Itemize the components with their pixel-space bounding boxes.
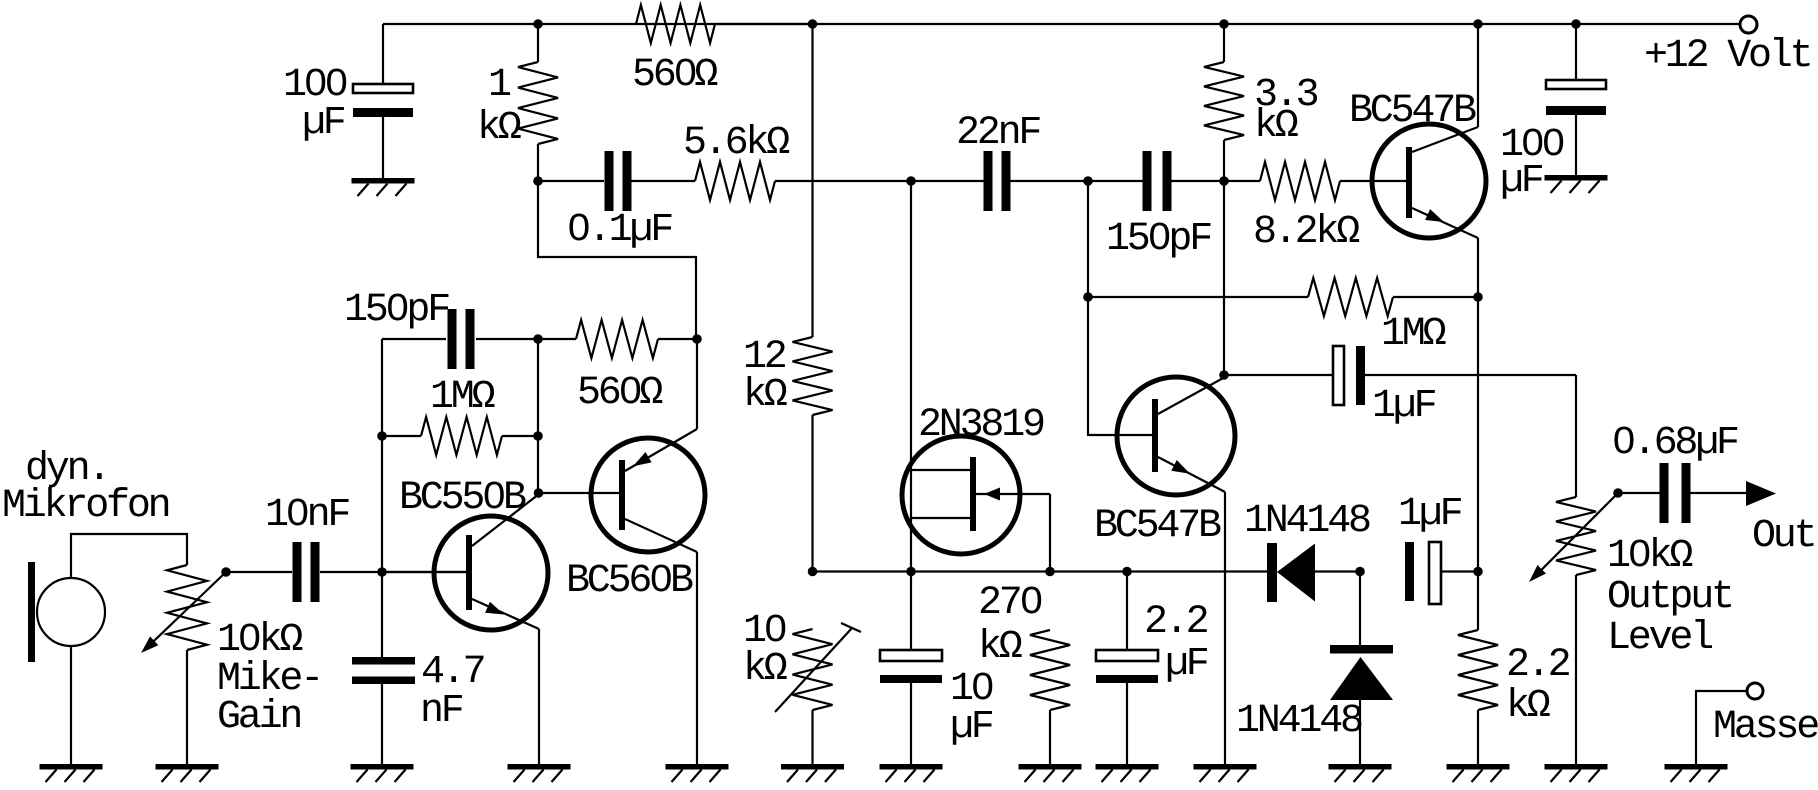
resistor R 1M left <box>421 375 502 455</box>
ground mic <box>40 764 103 782</box>
node N14 <box>1045 567 1055 577</box>
wire 0.1uF-5.6k <box>631 180 695 182</box>
wire 2.2k bottom <box>1477 710 1479 764</box>
wire 1k top <box>537 24 539 62</box>
svg-text:Level: Level <box>1607 616 1712 661</box>
svg-text:BC550B: BC550B <box>399 476 526 521</box>
wire node-10nF <box>226 571 292 573</box>
transistor Q BC547B out <box>1349 89 1486 238</box>
diode D 1N4148 vertical <box>1236 645 1393 744</box>
capacitor C 10nF <box>265 493 349 602</box>
wire rail seg <box>715 23 813 25</box>
capacitor C 150pF left <box>344 288 475 369</box>
wire 150pF1-560 <box>476 338 576 340</box>
wire 12k bottom <box>811 415 813 572</box>
wire trimmer bottom <box>811 710 813 764</box>
capacitor C 1uF feedback <box>1333 346 1436 429</box>
diode D 1N4148 horizontal <box>1244 499 1370 602</box>
svg-text:nF: nF <box>420 689 463 734</box>
arrow Out <box>1746 481 1814 559</box>
capacitor C 2.2uF <box>1096 600 1208 687</box>
node N13 <box>906 567 916 577</box>
node N11 (wiper) <box>221 567 231 577</box>
transistor Q BC560B <box>566 429 705 604</box>
wire 1M2 left <box>1088 296 1308 298</box>
potentiometer R 10k Mike-Gain <box>141 565 321 740</box>
svg-text:kΩ: kΩ <box>743 373 787 418</box>
wire 1224 vertical <box>1223 181 1225 375</box>
wire BC547B1 collector <box>1477 24 1479 127</box>
capacitor C 4.7nF <box>352 650 484 734</box>
ground 4.7nF <box>351 764 414 782</box>
wire pot-out top <box>1575 375 1577 497</box>
resistor R 1k <box>477 62 558 151</box>
wire 100uF-left top <box>382 24 384 84</box>
wire 5.6k-22nF <box>775 180 984 182</box>
wire 150pF-8.2k <box>1171 180 1260 182</box>
svg-text:1µF: 1µF <box>1398 492 1462 537</box>
microphone symbol <box>28 562 105 662</box>
ground BC550B emitter <box>508 764 571 782</box>
capacitor C 22nF <box>956 111 1040 211</box>
wire row3 <box>1050 570 1127 572</box>
wire 100uF-right bottom <box>1575 115 1577 175</box>
svg-text:µF: µF <box>1165 642 1208 687</box>
capacitor C 150pF right <box>1106 151 1211 262</box>
terminal +12 Volt <box>1644 16 1810 79</box>
svg-text:Output: Output <box>1607 575 1732 620</box>
wire 1M1 right <box>502 435 538 437</box>
svg-text:BC547B: BC547B <box>1349 89 1476 134</box>
ground 2.2k <box>1447 764 1510 782</box>
wire 270k bottom <box>1049 710 1051 764</box>
svg-text:Mikrofon: Mikrofon <box>2 484 169 529</box>
wire +12V top rail <box>383 23 1739 25</box>
svg-text:22nF: 22nF <box>956 111 1040 156</box>
node N7 <box>377 431 387 441</box>
wire to 0.1uF <box>538 180 604 182</box>
svg-text:Masse: Masse <box>1713 705 1818 750</box>
svg-text:µF: µF <box>302 101 345 146</box>
svg-text:10kΩ: 10kΩ <box>1607 534 1692 579</box>
resistor R 12k <box>743 335 833 418</box>
wire masse <box>1696 691 1747 764</box>
ground output pot <box>1545 764 1608 782</box>
capacitor C 0.1uF <box>567 151 672 253</box>
wire 150pF1 left <box>382 338 446 340</box>
node N6 <box>692 334 702 344</box>
wire 10uF top <box>910 572 912 651</box>
node N19 <box>1473 567 1483 577</box>
ground 100uF-left <box>352 178 415 196</box>
wire 2.2uF bottom <box>1126 683 1128 764</box>
svg-text:1µF: 1µF <box>1372 384 1436 429</box>
svg-text:BC560B: BC560B <box>566 559 693 604</box>
wire 10nF-base <box>320 571 466 573</box>
svg-text:10nF: 10nF <box>265 493 349 538</box>
wire 2.2uF top <box>1126 572 1128 651</box>
wire 4.7nF bottom <box>381 684 383 764</box>
ground 2.2uF <box>1096 764 1159 782</box>
wire BC547B2 emitter <box>1224 492 1226 764</box>
capacitor C 0.68uF <box>1612 421 1738 523</box>
svg-text:0.68µF: 0.68µF <box>1612 421 1738 466</box>
node N10 <box>534 488 544 498</box>
node N1 (1k/0.1uF) <box>533 176 543 186</box>
wire row4 <box>1127 570 1267 572</box>
resistor R 2.2k <box>1458 630 1570 729</box>
potentiometer R 10k preset <box>743 609 861 712</box>
svg-text:2N3819: 2N3819 <box>918 403 1044 448</box>
resistor R 8.2k <box>1253 162 1359 255</box>
svg-text:1: 1 <box>488 63 511 108</box>
node rail-E <box>1571 19 1581 29</box>
wire 1k bottom <box>537 144 539 181</box>
svg-text:1MΩ: 1MΩ <box>1381 312 1446 357</box>
svg-text:1N4148: 1N4148 <box>1244 499 1370 544</box>
wire diode-node <box>1315 570 1360 572</box>
wire 1M1 left <box>382 435 421 437</box>
wire 100uF-right top <box>1575 24 1577 80</box>
label mic <box>2 447 169 529</box>
ground 270k <box>1019 764 1082 782</box>
wire 3.3k bottom <box>1223 140 1225 181</box>
node N3 <box>1083 176 1093 186</box>
node N20 <box>1355 567 1365 577</box>
wire gate down <box>1049 494 1051 572</box>
svg-text:kΩ: kΩ <box>1506 684 1550 729</box>
wire left vertical <box>381 339 383 657</box>
resistor R 1M right <box>1308 278 1446 357</box>
ground trimmer <box>781 764 844 782</box>
wire 10uF bottom <box>910 683 912 764</box>
ground BC560B <box>666 764 729 782</box>
svg-text:2.2: 2.2 <box>1144 600 1208 645</box>
wire 1uF1 right <box>1365 374 1576 376</box>
node N12 <box>808 567 818 577</box>
svg-text:5.6kΩ: 5.6kΩ <box>683 121 789 166</box>
wire 1uF1 left <box>1224 374 1333 376</box>
ground BC547B2 <box>1194 764 1257 782</box>
svg-text:2.2: 2.2 <box>1506 643 1570 688</box>
wire BC560B emitter up <box>696 339 698 429</box>
svg-text:kΩ: kΩ <box>1254 104 1298 149</box>
capacitor C 100uF left <box>283 63 413 146</box>
svg-text:1N4148: 1N4148 <box>1236 699 1362 744</box>
node N17 <box>1473 292 1483 302</box>
svg-text:Gain: Gain <box>217 695 300 740</box>
node N8 <box>377 567 387 577</box>
ground 10uF <box>880 764 943 782</box>
wire 1uF2 right <box>1441 570 1478 572</box>
svg-text:µF: µF <box>1500 159 1543 204</box>
capacitor C 10uF <box>880 650 993 750</box>
svg-text:µF: µF <box>950 705 993 750</box>
svg-text:1MΩ: 1MΩ <box>430 375 495 420</box>
svg-text:+12 Volt: +12 Volt <box>1644 34 1810 79</box>
node rail-A <box>533 19 543 29</box>
wire diode2 top <box>1359 572 1361 647</box>
svg-text:kΩ: kΩ <box>477 106 521 151</box>
ground mike pot <box>156 764 219 782</box>
svg-text:kΩ: kΩ <box>743 647 787 692</box>
wire pot bottom <box>1575 575 1577 764</box>
wire BC550B emitter <box>538 629 540 764</box>
wire 8.2k-base <box>1340 180 1406 182</box>
wire diode2 bottom <box>1359 700 1361 764</box>
wire 1088 vertical <box>1088 181 1152 435</box>
wire BC560B base <box>539 492 620 494</box>
wire BC560B collector down <box>696 552 698 764</box>
node N4 <box>1219 176 1229 186</box>
node N2 (FET drain) <box>906 176 916 186</box>
node N9 <box>533 431 543 441</box>
wire 22nF-right <box>1010 180 1143 182</box>
wire mic top <box>71 534 187 578</box>
wire 560-2 right <box>658 338 697 340</box>
wire pot bottom <box>186 650 188 764</box>
svg-text:Out: Out <box>1752 514 1814 559</box>
capacitor C 100uF right <box>1500 80 1606 204</box>
node N5 <box>533 334 543 344</box>
wire row1 <box>813 570 912 572</box>
terminal Masse <box>1713 683 1818 750</box>
resistor R 270k <box>978 581 1070 710</box>
transistor Q BC550B <box>399 476 548 630</box>
node rail-C <box>1219 19 1229 29</box>
svg-text:560Ω: 560Ω <box>632 53 717 98</box>
node N16 <box>1083 292 1093 302</box>
transistor Q BC547B control <box>1094 377 1235 549</box>
wire 538 vertical <box>537 339 539 493</box>
svg-text:560Ω: 560Ω <box>577 371 662 416</box>
transistor Q 2N3819 <box>902 403 1050 554</box>
wire wiper-cap <box>1618 492 1661 494</box>
resistor R 5.6k <box>683 121 789 200</box>
svg-text:BC547B: BC547B <box>1094 504 1221 549</box>
wire L-path <box>538 181 696 339</box>
wire cap-out <box>1690 492 1746 494</box>
resistor R 560 top <box>632 5 717 98</box>
wire 12k top <box>811 24 813 337</box>
ground masse <box>1665 764 1728 782</box>
node N21 (out wiper) <box>1613 488 1623 498</box>
ground diode2 <box>1329 764 1392 782</box>
svg-text:8.2kΩ: 8.2kΩ <box>1253 210 1359 255</box>
wire 1M2 right <box>1393 296 1478 298</box>
capacitor C 1uF out <box>1398 492 1462 604</box>
wire mic bottom <box>70 646 72 764</box>
wire 100uF-left bottom <box>382 117 384 178</box>
node rail-B <box>808 19 818 29</box>
wire 3.3k top <box>1223 24 1225 62</box>
node rail-D <box>1473 19 1483 29</box>
wire BC547B1 emitter <box>1477 238 1479 630</box>
resistor R 560 second <box>576 320 662 416</box>
svg-text:kΩ: kΩ <box>978 625 1022 670</box>
wire FET drain/source vertical <box>910 181 912 572</box>
wire row2 <box>911 570 1050 572</box>
potentiometer R 10k Output Level <box>1529 493 1732 661</box>
node N18 <box>1219 370 1229 380</box>
resistor R 3.3k <box>1204 62 1318 149</box>
wire BC550B base <box>382 571 466 573</box>
node N15 <box>1122 567 1132 577</box>
ground 100uF-right <box>1545 175 1608 193</box>
